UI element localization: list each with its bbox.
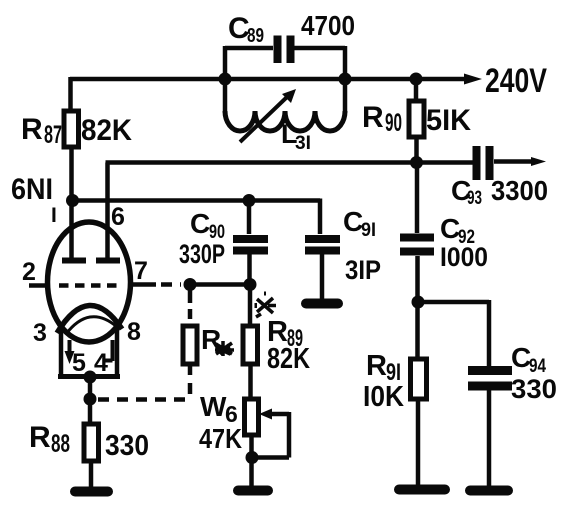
ground: R88 [75,487,108,497]
wire: tank left vertical [223,46,228,113]
wire: R91 bottom lead to ground [416,399,421,486]
label R91 [363,350,404,413]
svg-text:8: 8 [127,318,141,346]
label C89 [228,12,264,47]
svg-text:7: 7 [134,257,148,285]
wire: pin 6 vertical and long rail y163 [106,163,474,261]
wire: cathode down [88,377,93,399]
wire: C90 bottom lead [247,254,252,285]
svg-text:3: 3 [33,319,47,347]
tube base box bottom [58,374,120,379]
resistor R87 [64,111,79,147]
tube base box left side [59,326,64,376]
potentiometer W6 wiper arrow [252,409,289,458]
tube grid dashes [59,283,118,288]
wire: C94 bottom lead to ground [487,390,492,487]
capacitor C93 plates [477,146,490,180]
label R90 [362,101,471,137]
wire: dashed from pin7 stub to node [161,282,181,287]
node: 240V arrowhead [464,74,482,85]
node: junction tank right [339,73,352,86]
wire: branch to C94 [418,300,489,366]
svg-text:5: 5 [72,349,86,377]
svg-text:3I: 3I [295,133,311,154]
label R88 [29,421,149,462]
wire: pin 2 dash [29,283,45,288]
svg-text:240V: 240V [485,62,547,100]
svg-text:47K: 47K [199,423,242,454]
capacitor C90 plates [233,239,268,251]
wire: pin 7 stub [130,282,156,287]
node: junction cathode box bottom [84,371,97,384]
wire: C92 bottom lead [415,256,420,302]
wire: node to C90/R89 column [190,282,250,287]
wire: W6 bottom lead to ground [249,435,254,487]
potentiometer W6 body [245,399,259,435]
wire: C90 top lead [247,200,252,234]
svg-text:C: C [190,208,210,239]
svg-text:W: W [200,391,227,422]
ground: W6 [238,486,268,496]
label C92 [440,213,488,272]
wire: R89 top lead [248,285,253,328]
resistor R88 [84,424,99,461]
tube cathode arc inner [66,317,116,334]
ground: C94 [470,486,508,496]
wire: Rx dashed top lead [188,309,193,327]
label W6 [199,391,242,454]
svg-text:4: 4 [94,349,108,377]
svg-text:6: 6 [111,203,125,231]
tube 6N1 envelope [48,222,131,342]
svg-text:82K: 82K [81,114,132,147]
resistor Rx (unlabelled, dashed alternative) [183,326,197,364]
inductor L31 coil [225,111,345,131]
label C91 [343,206,381,285]
svg-text:87: 87 [44,121,62,149]
svg-text:I000: I000 [440,242,488,272]
svg-text:82K: 82K [267,343,310,375]
label R87 [21,113,132,149]
node: junction C90 top [243,194,256,207]
resistor R90 [409,101,424,137]
label C90 [179,208,225,269]
wire: tank right vertical [343,46,348,113]
symbol: reference mark near R89 [255,294,277,318]
svg-text:3IP: 3IP [345,255,381,285]
tube pin 5 heater lead with arrow [65,340,75,364]
svg-text:9I: 9I [361,220,376,241]
ground: R91 [399,485,445,495]
svg-text:330: 330 [105,430,149,462]
tube plate 2 [96,258,120,264]
symbol: smudged subscript of Rx label [215,341,234,356]
wire: R91 top lead [415,302,420,360]
capacitor C94 plates [468,371,512,387]
svg-text:I: I [51,204,57,227]
svg-text:I0K: I0K [363,381,404,413]
svg-text:R: R [21,113,43,146]
wire: rail after C93 to output arrow [494,159,536,164]
wire: C91 bottom lead to ground [320,254,325,300]
capacitor C92 plates [400,238,434,252]
svg-text:R: R [29,421,51,454]
label C94 [511,342,557,404]
label L31 [281,119,311,154]
tube base box right side [115,328,120,376]
wire: Rx dashed bottom lead [188,364,193,399]
wire: R90 bottom lead [414,137,419,163]
wire: tank top branch [225,46,345,51]
svg-text:93: 93 [467,188,482,209]
node: junction W6 bottom / wiper [246,451,259,464]
label R89 [267,316,310,375]
capacitor C89 plates [278,36,291,64]
node: junction tank left [219,73,232,86]
wire: R88 bottom lead to ground [89,461,94,488]
wire: R87 top lead from rail [68,77,73,112]
tube plate 1 [62,258,86,264]
svg-text:88: 88 [51,430,70,458]
wire: dashed feedback line to Rx [98,397,190,402]
wire: R87 bottom lead to plate pin 1 [69,147,74,258]
svg-text:89: 89 [247,25,264,47]
svg-text:R: R [201,324,221,355]
wire: R88 top lead [88,399,93,425]
label C93 [451,175,548,209]
node: junction rail163 / C92 [410,156,423,169]
node: junction cathode / dashed feedback [84,393,97,406]
svg-text:R: R [366,350,387,382]
svg-text:5IK: 5IK [426,104,471,137]
svg-text:90: 90 [385,109,402,137]
resistor R89 [243,326,258,364]
svg-text:4700: 4700 [301,10,355,41]
capacitor C91 plates [305,239,340,251]
node: output arrowhead [531,157,546,166]
ground: C91 [306,299,338,309]
resistor R91 [411,359,427,399]
node: junction pin1/rail2 [66,194,79,207]
wire: C92 top lead [415,163,420,233]
wire: Rx top stub [188,285,193,304]
node: junction top rail / R90 [410,73,423,86]
svg-text:330P: 330P [179,239,225,269]
node: L31 adjuster arrow [240,89,296,142]
tube pin 4 lead with tick [103,340,113,361]
node: junction grid node (pin7 net) [184,278,197,291]
node: junction C92/R91/C94 [412,296,425,309]
wire: R89 to W6 [248,364,253,400]
svg-text:6NI: 6NI [11,173,53,206]
wire: rail from pin1 to C90/C91 [73,199,321,235]
svg-text:3300: 3300 [491,175,548,206]
wire: R90 top lead [414,79,419,102]
svg-text:330: 330 [511,374,557,404]
wire: 240V top rail [70,77,468,82]
node: junction C90 bottom / R89 top [244,278,257,291]
svg-text:R: R [362,101,384,134]
tube cathode arc outer [57,305,122,333]
svg-text:2: 2 [22,258,36,286]
